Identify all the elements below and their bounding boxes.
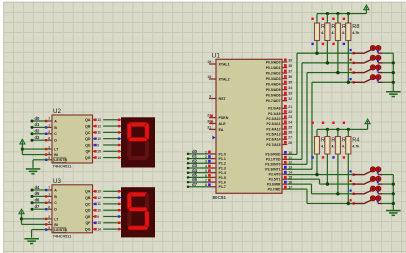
- svg-text:38: 38: [288, 64, 292, 68]
- svg-text:B: B: [54, 195, 57, 199]
- ground bus (B): [392, 175, 395, 210]
- svg-text:P1.2: P1.2: [219, 162, 226, 166]
- wires U3 outputs to display DS2: [103, 190, 121, 230]
- svg-text:80C51: 80C51: [213, 195, 227, 200]
- wire U1 P3.7 to lower switch row 4: [287, 189, 353, 205]
- svg-text:4.7k: 4.7k: [352, 145, 359, 149]
- switch SWA2: [350, 55, 394, 64]
- power symbol and wires to LT/BI (U3): [18, 208, 46, 225]
- svg-text:2: 2: [48, 199, 50, 203]
- svg-text:11: 11: [97, 131, 101, 135]
- svg-text:LE/STB: LE/STB: [54, 158, 67, 162]
- svg-text:U2: U2: [53, 108, 61, 115]
- svg-text:QA: QA: [85, 190, 91, 194]
- svg-text:PSEN: PSEN: [219, 116, 229, 120]
- svg-text:P3.2/INT0: P3.2/INT0: [265, 163, 280, 167]
- svg-text:6: 6: [48, 205, 50, 209]
- svg-text:d0: d0: [35, 116, 41, 121]
- svg-text:P3.7/RD: P3.7/RD: [268, 187, 281, 191]
- svg-text:31: 31: [207, 125, 211, 129]
- svg-text:P0.5/AD5: P0.5/AD5: [266, 88, 281, 92]
- svg-text:D: D: [54, 208, 57, 212]
- svg-text:25: 25: [288, 125, 292, 129]
- svg-text:39: 39: [288, 58, 292, 62]
- svg-text:P2.4/A12: P2.4/A12: [266, 127, 280, 131]
- svg-text:d5: d5: [35, 191, 41, 196]
- svg-text:R8: R8: [352, 24, 359, 30]
- svg-text:12: 12: [97, 124, 101, 128]
- display DS1 segments: [127, 122, 149, 160]
- svg-text:37: 37: [288, 69, 292, 73]
- svg-text:QE: QE: [85, 215, 91, 219]
- svg-text:P3.6/WR: P3.6/WR: [267, 183, 281, 187]
- svg-text:P2.5/A13: P2.5/A13: [266, 133, 280, 137]
- svg-text:9: 9: [97, 215, 99, 219]
- svg-text:P3.4/T0: P3.4/T0: [269, 173, 281, 177]
- svg-text:3: 3: [48, 215, 50, 219]
- svg-text:QG: QG: [85, 228, 91, 232]
- svg-text:A: A: [54, 188, 57, 192]
- ground at LE/STB (U3): [24, 229, 46, 244]
- svg-text:A: A: [54, 119, 57, 123]
- svg-text:13: 13: [97, 190, 101, 194]
- svg-text:P0.4/AD4: P0.4/AD4: [266, 82, 281, 86]
- ground at LE/STB (U2): [26, 159, 46, 174]
- svg-text:P3.1/TXD: P3.1/TXD: [266, 158, 281, 162]
- wires and net labels d4-d7 into U3: [31, 185, 47, 211]
- svg-text:74HC4511: 74HC4511: [53, 164, 73, 169]
- svg-text:QF: QF: [86, 150, 92, 154]
- switch SWA4: [350, 75, 394, 84]
- svg-text:28: 28: [288, 141, 292, 145]
- svg-text:35: 35: [288, 81, 292, 85]
- svg-text:P0.3/AD3: P0.3/AD3: [266, 77, 281, 81]
- svg-text:4.7k: 4.7k: [352, 31, 359, 35]
- wires and net labels d0-d7 at U1 P1 pins: [187, 149, 209, 188]
- svg-text:P1.6: P1.6: [219, 181, 226, 185]
- svg-text:D: D: [54, 139, 57, 143]
- svg-text:P1.5: P1.5: [219, 176, 226, 180]
- U3 output pins QA-QG: [85, 190, 101, 232]
- U1 left pins (XTAL1,XTAL2,RST,PSEN,ALE,EA,P1.0-P1.7): [205, 60, 230, 189]
- svg-text:d7: d7: [192, 182, 198, 187]
- svg-text:15: 15: [97, 150, 101, 154]
- svg-text:6: 6: [48, 136, 50, 140]
- svg-text:d7: d7: [35, 204, 41, 209]
- svg-text:U3: U3: [53, 178, 61, 185]
- svg-text:1: 1: [48, 193, 50, 197]
- svg-text:P3.3/INT1: P3.3/INT1: [265, 168, 280, 172]
- svg-text:7: 7: [48, 186, 50, 190]
- svg-text:XTAL1: XTAL1: [219, 62, 230, 66]
- svg-text:4: 4: [48, 221, 50, 225]
- svg-text:4: 4: [48, 151, 50, 155]
- svg-text:P1.3: P1.3: [219, 166, 226, 170]
- U1 right pin state markers: [284, 59, 287, 189]
- svg-text:P0.7/AD7: P0.7/AD7: [266, 99, 281, 103]
- power symbol and wires to LT/BI (U2): [19, 138, 46, 155]
- resistor R1 4.7k (bottom network): [311, 122, 328, 177]
- svg-text:P2.1/A9: P2.1/A9: [268, 112, 280, 116]
- svg-text:ALE: ALE: [219, 122, 227, 126]
- svg-text:24: 24: [288, 120, 292, 124]
- wire U1 P3.4 to lower switch row 1: [287, 174, 353, 175]
- svg-text:2: 2: [48, 130, 50, 134]
- svg-text:QB: QB: [85, 196, 91, 200]
- svg-text:d4: d4: [35, 185, 41, 190]
- svg-text:21: 21: [288, 105, 292, 109]
- svg-text:QD: QD: [85, 209, 91, 213]
- svg-text:d6: d6: [35, 198, 41, 203]
- svg-text:P2.0/A8: P2.0/A8: [268, 107, 280, 111]
- wires and net labels d0-d3 into U2: [31, 116, 47, 142]
- svg-text:QC: QC: [85, 131, 91, 135]
- svg-text:22: 22: [288, 110, 292, 114]
- svg-text:P3.5/T1: P3.5/T1: [269, 178, 281, 182]
- svg-text:QG: QG: [85, 156, 91, 160]
- svg-text:U1: U1: [212, 52, 221, 59]
- svg-text:13: 13: [97, 118, 101, 122]
- svg-text:1: 1: [48, 124, 50, 128]
- resistor R6 4.7k (top network): [322, 12, 339, 65]
- svg-text:LE/STB: LE/STB: [54, 228, 67, 232]
- switch SWB4: [350, 196, 394, 205]
- ground bus (A): [392, 53, 395, 91]
- svg-text:14: 14: [97, 156, 101, 160]
- switch SWB3: [350, 186, 394, 195]
- svg-text:R4: R4: [352, 138, 359, 144]
- svg-text:P0.6/AD6: P0.6/AD6: [266, 93, 281, 97]
- svg-text:36: 36: [288, 75, 292, 79]
- svg-text:QB: QB: [85, 125, 91, 129]
- svg-text:QC: QC: [85, 202, 91, 206]
- svg-text:QD: QD: [85, 137, 91, 141]
- ground symbol (B): [386, 210, 401, 216]
- svg-text:P0.1/AD1: P0.1/AD1: [266, 66, 281, 70]
- svg-text:10: 10: [97, 209, 101, 213]
- svg-text:d2: d2: [35, 129, 41, 134]
- wires U1 P3.0-P3.3 to upper switch rows: [287, 53, 353, 170]
- svg-text:C: C: [54, 201, 57, 205]
- svg-text:7: 7: [48, 117, 50, 121]
- U2 output pins QA-QG: [85, 118, 101, 160]
- svg-text:10: 10: [97, 137, 101, 141]
- svg-text:P1.7: P1.7: [219, 185, 226, 189]
- svg-text:9: 9: [97, 143, 99, 147]
- svg-text:QF: QF: [86, 221, 92, 225]
- svg-text:QE: QE: [85, 143, 91, 147]
- U1 left pin state markers: [208, 115, 216, 186]
- wires U2 outputs to display DS1: [103, 119, 121, 159]
- svg-text:P2.3/A11: P2.3/A11: [267, 122, 281, 126]
- 7-segment display DS2 body: [121, 187, 155, 237]
- resistor R2 4.7k (bottom network): [322, 122, 339, 186]
- svg-text:34: 34: [288, 86, 292, 90]
- svg-text:P2.6/A14: P2.6/A14: [266, 138, 280, 142]
- switch SWA1: [350, 45, 394, 54]
- decoder U3 body (74HC4511): [52, 178, 93, 238]
- switch SWB1: [350, 167, 394, 176]
- svg-text:32: 32: [288, 97, 292, 101]
- svg-text:XTAL2: XTAL2: [219, 77, 230, 81]
- svg-text:14: 14: [97, 227, 101, 231]
- wire U1 P3.6 to lower switch row 3: [287, 184, 353, 195]
- svg-text:23: 23: [288, 115, 292, 119]
- svg-text:3: 3: [48, 145, 50, 149]
- svg-text:74HC4511: 74HC4511: [53, 233, 73, 238]
- resistor R5 4.7k (top network): [311, 14, 328, 55]
- ground symbol (A): [386, 91, 401, 97]
- svg-text:9: 9: [209, 95, 211, 99]
- svg-text:33: 33: [288, 92, 292, 96]
- svg-text:d1: d1: [35, 122, 41, 127]
- svg-text:B: B: [54, 126, 57, 130]
- svg-text:P0.2/AD2: P0.2/AD2: [266, 71, 281, 75]
- svg-text:P0.0/AD0: P0.0/AD0: [266, 60, 281, 64]
- svg-text:5: 5: [48, 226, 50, 230]
- svg-text:19: 19: [207, 60, 211, 64]
- svg-text:P1.4: P1.4: [219, 171, 226, 175]
- wire U1 P3.5 to lower switch row 2: [287, 179, 353, 185]
- power rail with VCC arrow (top network): [317, 4, 370, 14]
- microcontroller U1 body (80C51): [212, 52, 282, 200]
- svg-text:P1.1: P1.1: [219, 157, 226, 161]
- svg-text:EA: EA: [219, 128, 224, 132]
- svg-text:26: 26: [288, 131, 292, 135]
- U3 input pins A-D, LT, BI, LE/STB: [45, 186, 67, 232]
- resistor R8 4.7k (top network): [343, 12, 360, 84]
- 7-segment display DS1 body: [121, 117, 155, 167]
- switch SWA3: [350, 65, 394, 74]
- decoder U2 body (74HC4511): [52, 108, 93, 168]
- display DS2 segments: [127, 192, 149, 230]
- svg-text:C: C: [54, 132, 57, 136]
- svg-text:BI: BI: [54, 223, 58, 227]
- svg-text:11: 11: [97, 202, 101, 206]
- svg-text:BI: BI: [54, 153, 58, 157]
- svg-text:QA: QA: [85, 118, 91, 122]
- svg-text:5: 5: [48, 156, 50, 160]
- svg-text:12: 12: [97, 196, 101, 200]
- resistor R3 4.7k (bottom network): [332, 122, 349, 196]
- svg-text:18: 18: [207, 75, 211, 79]
- svg-text:P2.7/A15: P2.7/A15: [266, 143, 280, 147]
- svg-text:RST: RST: [219, 97, 227, 101]
- svg-text:27: 27: [288, 136, 292, 140]
- resistor R7 4.7k (top network): [332, 12, 349, 74]
- svg-text:P2.2/A10: P2.2/A10: [266, 117, 280, 121]
- resistor R4 4.7k (bottom network): [343, 122, 360, 206]
- svg-text:d3: d3: [35, 135, 41, 140]
- switch SWB2: [350, 176, 394, 185]
- U2 input pins A-D, LT, BI, LE/STB: [45, 117, 67, 162]
- svg-text:15: 15: [97, 221, 101, 225]
- svg-text:P1.0: P1.0: [219, 152, 226, 156]
- svg-text:P3.0/RXD: P3.0/RXD: [265, 153, 281, 157]
- power rail with VCC arrow (bottom network): [317, 118, 371, 130]
- U1 right pins (P0,P2,P3) with pin numbers: [265, 58, 292, 191]
